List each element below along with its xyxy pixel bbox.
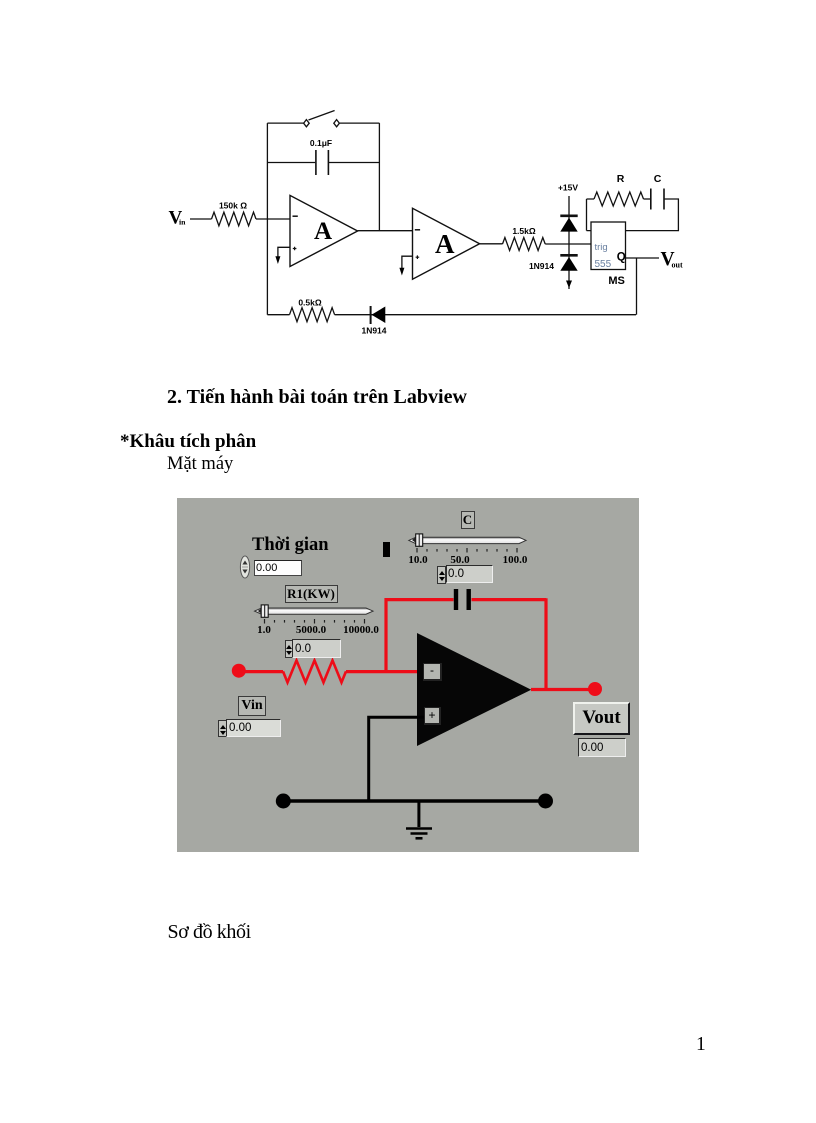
svg-text:R: R — [617, 173, 625, 185]
op-amp triangle — [417, 633, 531, 746]
spinner oval (Thoi gian) — [240, 556, 249, 578]
terminal output red — [588, 682, 602, 696]
wire black bottom rail — [283, 799, 546, 803]
svg-text:555: 555 — [595, 259, 612, 270]
Vin numeric spin buttons — [218, 720, 227, 737]
capacitor 0.1µF — [267, 138, 379, 175]
op-amp U1 — [290, 195, 358, 266]
slider R1 track — [255, 605, 373, 617]
wire right feedback vertical — [378, 123, 380, 231]
label R1(KW) — [285, 585, 338, 603]
wire diode column — [568, 196, 570, 289]
wire Q output — [626, 257, 660, 259]
terminal ground left — [276, 794, 291, 809]
wire U1 output to U2 inverting input — [358, 230, 413, 232]
svg-text:out: out — [672, 261, 683, 270]
switch S1 — [267, 111, 379, 127]
wire U2 output — [480, 243, 503, 245]
diode D3 1N914 — [361, 306, 386, 336]
wire red output — [531, 688, 595, 691]
svg-text:Q: Q — [617, 252, 626, 264]
ground symbol — [406, 801, 432, 838]
555 monostable U3 — [591, 222, 626, 287]
wire Vin to input resistor — [190, 218, 212, 220]
ground U1 non-inverting input — [275, 247, 290, 264]
capacitor C — [644, 173, 665, 210]
svg-text:150k Ω: 150k Ω — [219, 201, 247, 211]
wire bottom feedback — [267, 314, 636, 316]
resistor 150kΩ — [212, 201, 257, 226]
R1 numeric box — [292, 639, 341, 658]
svg-text:A: A — [435, 229, 455, 259]
resistor 1.5kΩ — [503, 226, 546, 251]
label Vin — [238, 696, 266, 716]
resistor R1 panel — [283, 660, 346, 682]
cursor legend block — [383, 542, 390, 557]
ground U2 non-inverting input — [399, 256, 412, 275]
slider C tick marks — [417, 548, 517, 553]
terminal input red — [232, 664, 246, 678]
Vout numeric box — [578, 738, 626, 757]
wire resistor to U1 inverting input — [256, 218, 290, 220]
node Vout — [661, 249, 683, 270]
label C — [461, 511, 475, 529]
negative rail arrow — [566, 281, 572, 289]
R1 scale numbers — [263, 624, 265, 626]
wire left feedback vertical — [266, 123, 268, 315]
svg-text:1.5kΩ: 1.5kΩ — [512, 226, 536, 236]
slider C track — [409, 534, 526, 546]
wire red input — [244, 670, 423, 673]
svg-text:1N914: 1N914 — [361, 326, 386, 336]
svg-text:C: C — [654, 173, 662, 185]
node Vin — [169, 207, 187, 228]
svg-text:+15V: +15V — [558, 183, 578, 193]
panel graphics svg — [177, 498, 639, 852]
C numeric box — [446, 565, 493, 583]
svg-text:in: in — [179, 217, 186, 226]
C scale numbers — [417, 554, 419, 556]
diode D2 1N914 — [529, 255, 578, 271]
svg-text:0.1μF: 0.1μF — [310, 138, 332, 148]
slider R1 tick marks — [265, 619, 365, 624]
numeric Thoi gian — [254, 560, 302, 576]
wire red feedback loop — [386, 598, 546, 689]
resistor R — [594, 173, 644, 206]
wire to trig input — [545, 243, 591, 245]
capacitor C panel — [456, 589, 469, 610]
svg-text:1N914: 1N914 — [529, 261, 554, 271]
wire RC loop — [587, 199, 679, 231]
svg-text:trig: trig — [595, 242, 608, 253]
op-amp inverting input box — [423, 663, 442, 681]
Vin numeric box — [226, 719, 281, 737]
button Vout — [573, 702, 630, 735]
svg-text:MS: MS — [608, 275, 625, 287]
wire black to plus input — [369, 717, 424, 801]
wire Q feedback vertical — [636, 258, 638, 315]
svg-text:A: A — [314, 218, 332, 245]
op-amp non-inverting input box — [424, 707, 441, 725]
R1 numeric spin buttons — [285, 640, 294, 658]
C numeric spin buttons — [437, 566, 446, 584]
resistor 0.5kΩ — [290, 298, 335, 322]
diode D1 — [560, 216, 577, 232]
label Thoi gian — [252, 536, 329, 555]
terminal ground right — [538, 794, 553, 809]
svg-text:0.5kΩ: 0.5kΩ — [298, 298, 322, 308]
op-amp U2 — [413, 208, 480, 279]
